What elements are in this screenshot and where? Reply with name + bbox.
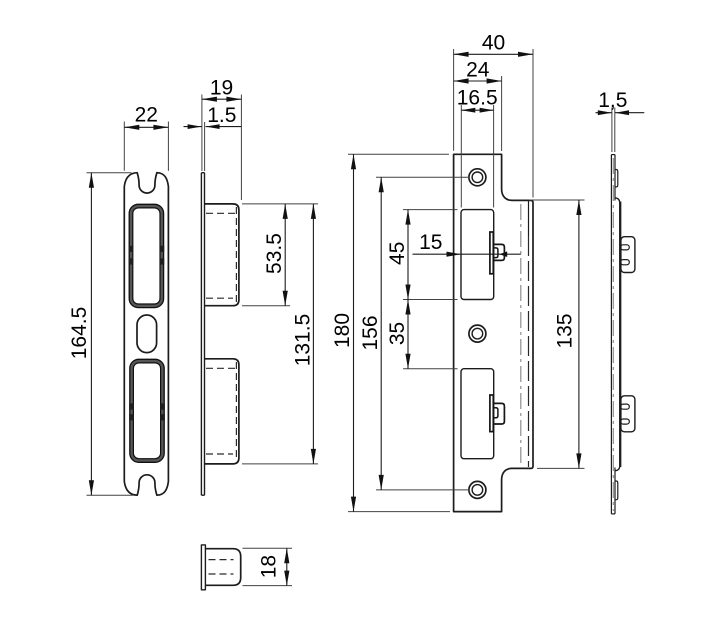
side view lower box — [205, 359, 239, 464]
side view upper box hidden lines — [206, 212, 236, 214]
strike plate lower cutout band — [132, 361, 163, 461]
svg-text:135: 135 — [554, 313, 577, 348]
svg-text:180: 180 — [331, 313, 354, 348]
dimension 35 extension line — [403, 368, 458, 370]
dimension 180 extension lines — [348, 153, 449, 155]
dimension 131.5 line — [312, 204, 314, 464]
svg-text:53.5: 53.5 — [263, 233, 286, 274]
svg-text:131.5: 131.5 — [291, 314, 314, 367]
svg-text:22: 22 — [135, 104, 158, 127]
strike plate upper cutout outer — [129, 204, 163, 307]
dimension 22 line — [124, 126, 168, 128]
strike plate upper cutout band — [131, 206, 162, 306]
svg-text:40: 40 — [482, 31, 505, 54]
dimension 16.5 extension lines — [460, 105, 462, 208]
lock lower latch tab inner — [494, 408, 498, 418]
svg-text:16.5: 16.5 — [457, 86, 498, 109]
lock side view centerline — [612, 158, 614, 511]
dimension 53.5 extension lines — [242, 203, 318, 205]
lock upper latch tab inner — [494, 248, 498, 258]
svg-text:1.5: 1.5 — [207, 104, 236, 127]
lock hidden depth line — [528, 201, 530, 236]
lock bottom screw hole — [469, 481, 486, 498]
dimension 18 extension lines — [243, 547, 293, 549]
strike plate lower cutout inner — [133, 363, 160, 459]
lock lower latch bolt bar — [490, 395, 493, 432]
dimension 16.5 line — [461, 109, 493, 111]
lock middle screw hole — [469, 325, 486, 342]
dimension 135 line — [578, 200, 580, 468]
side view lower box hidden lines — [206, 367, 236, 369]
lower tab pin 2 — [621, 419, 630, 424]
bottom detail box — [205, 549, 240, 586]
lower tab pin 1 — [621, 404, 630, 409]
dimension 35 line — [407, 300, 409, 369]
dimension 1.5 right line — [596, 112, 612, 114]
lock upper latch cutout — [461, 210, 494, 300]
lower cutout hidden dash marks — [132, 403, 163, 420]
lock side view upper tab — [621, 237, 635, 273]
dimension 40 line — [454, 53, 533, 55]
lock side view faceplate — [610, 155, 612, 514]
lock side view lower tab — [621, 396, 635, 432]
dimension 15 line — [413, 253, 521, 255]
dimension 19 extension lines — [201, 95, 203, 172]
svg-text:156: 156 — [359, 315, 382, 350]
dimension 24 extension line — [501, 76, 503, 151]
lock top screw hole — [469, 169, 486, 186]
svg-text:15: 15 — [419, 231, 442, 254]
dimension 45 extension lines — [403, 209, 458, 211]
upper tab pin 2 — [621, 260, 630, 265]
strike plate lower cutout outer — [130, 359, 164, 462]
dimension 22 extension lines — [123, 122, 125, 171]
lock side view top bump — [615, 170, 618, 187]
svg-text:24: 24 — [466, 58, 490, 81]
lock case front view outline — [454, 154, 533, 511]
svg-text:164.5: 164.5 — [68, 307, 91, 360]
dimension 1.5 line — [184, 126, 202, 128]
lock centerline — [520, 204, 522, 468]
dimension 40 extension lines — [453, 49, 455, 151]
dimension 53.5 line — [284, 204, 286, 306]
lock side view 1.5 extension lines — [611, 108, 613, 153]
svg-text:45: 45 — [386, 242, 409, 265]
strike plate front view outline — [124, 173, 168, 496]
dimension 131.5 extension line — [242, 463, 318, 465]
bottom detail flange — [201, 545, 205, 590]
strike plate middle oval hole — [137, 315, 157, 353]
svg-text:35: 35 — [386, 322, 409, 345]
dimension 164.5 line — [90, 173, 92, 496]
bottom detail hidden lines — [209, 559, 234, 561]
upper cutout hidden dash marks — [131, 246, 162, 265]
upper tab pin 1 — [621, 245, 630, 250]
dimension 180 line — [353, 154, 355, 511]
svg-text:18: 18 — [258, 555, 281, 578]
svg-text:19: 19 — [210, 76, 233, 99]
lock side view case edge — [619, 202, 621, 468]
strike plate side view plate — [200, 173, 202, 496]
dimension 18 line — [286, 548, 288, 585]
lock upper latch tab outer — [494, 244, 505, 260]
dimension 164.5 extension lines — [87, 172, 132, 174]
svg-text:1,5: 1,5 — [598, 89, 627, 112]
lock side view bottom bump — [615, 481, 618, 500]
strike plate upper cutout inner — [133, 208, 160, 304]
lock lower latch cutout — [461, 369, 494, 459]
dimension 24 line — [454, 80, 502, 82]
lock lower latch tab outer — [494, 403, 505, 424]
dimension 135 extension lines — [529, 199, 585, 201]
dimension 19 line — [202, 98, 242, 100]
dimension 45 line — [407, 210, 409, 300]
lock upper latch bolt bar — [490, 232, 493, 274]
side view upper box — [205, 204, 239, 306]
dimension 156 extension lines — [376, 176, 470, 178]
dimension 156 line — [380, 177, 382, 490]
